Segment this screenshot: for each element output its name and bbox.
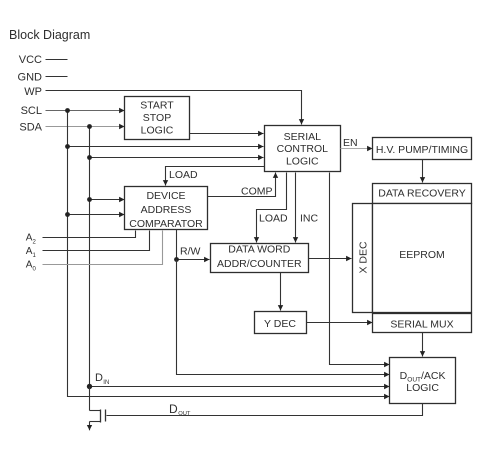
svg-text:LOGIC: LOGIC xyxy=(141,125,174,137)
svg-text:Block Diagram: Block Diagram xyxy=(9,28,90,42)
junction dot SCL bus row2 xyxy=(65,144,70,149)
box U1 START STOP LOGIC xyxy=(125,97,190,140)
svg-text:START: START xyxy=(140,99,174,111)
svg-text:DEVICE: DEVICE xyxy=(146,190,185,202)
svg-text:ADDR/COUNTER: ADDR/COUNTER xyxy=(217,258,302,270)
wire EN serial control to hv pump xyxy=(341,148,373,150)
box U5 Y DEC xyxy=(255,312,307,334)
svg-text:EEPROM: EEPROM xyxy=(399,249,445,261)
wire R/W into data word addr counter xyxy=(177,259,210,261)
junction dot SCL line xyxy=(65,108,70,113)
wire A0 to comparator xyxy=(43,231,163,265)
wire R/W down to dout ack logic xyxy=(177,260,390,375)
svg-text:COMP: COMP xyxy=(241,186,273,198)
wire GND stub xyxy=(46,76,68,78)
svg-text:DATA WORD: DATA WORD xyxy=(228,244,290,256)
pin label A1 xyxy=(26,246,37,259)
svg-text:SCL: SCL xyxy=(21,105,42,117)
wire VCC stub xyxy=(46,59,68,61)
svg-text:INC: INC xyxy=(300,213,319,225)
svg-text:X DEC: X DEC xyxy=(358,241,370,274)
svg-text:D: D xyxy=(95,372,103,384)
wire SDA bus to device address comparator xyxy=(90,199,125,201)
svg-text:VCC: VCC xyxy=(19,54,42,66)
wire DOUT from dout ack logic to transistor gate xyxy=(107,404,423,416)
box U4 DATA WORD ADDR COUNTER xyxy=(211,244,309,273)
box U8 X DEC xyxy=(353,204,373,313)
wire LOAD serial control to data word xyxy=(257,173,287,243)
wire A1 to comparator xyxy=(43,231,150,251)
junction dot R/W xyxy=(174,257,179,262)
ground xyxy=(89,422,91,431)
wire SCL bus to serial control logic xyxy=(68,146,264,148)
svg-text:D: D xyxy=(169,402,178,416)
node DOUT label xyxy=(169,402,191,417)
wire serial mux to dout ack logic xyxy=(422,333,424,357)
box U11 DOUT ACK LOGIC xyxy=(390,358,456,404)
svg-text:IN: IN xyxy=(103,380,109,386)
svg-text:SERIAL MUX: SERIAL MUX xyxy=(390,319,453,331)
wire COMP comparator to serial control xyxy=(208,173,276,197)
box U3 DEVICE ADDRESS COMPARATOR xyxy=(125,187,208,230)
wire hv pump to data recovery xyxy=(422,160,424,183)
wire serial control to dout ack logic xyxy=(330,173,390,365)
wire LOAD serial control to comparator xyxy=(166,167,265,186)
wire data word to y dec xyxy=(280,273,282,311)
box U2 SERIAL CONTROL LOGIC xyxy=(265,126,341,172)
wire start stop logic to serial control logic xyxy=(190,133,264,135)
svg-text:R/W: R/W xyxy=(180,246,201,258)
junction dot SDA bus comparator xyxy=(87,197,92,202)
wire WP to serial control logic top xyxy=(46,91,302,125)
pin label A0 xyxy=(26,260,37,273)
wire SDA bus to serial control logic xyxy=(90,157,264,159)
transistor Q1 output mosfet xyxy=(90,387,106,423)
junction dot SDA bus row3 xyxy=(87,155,92,160)
svg-text:LOGIC: LOGIC xyxy=(406,382,439,394)
svg-text:CONTROL: CONTROL xyxy=(277,143,328,155)
svg-text:WP: WP xyxy=(24,86,42,98)
wire SDA vertical bus xyxy=(89,127,91,387)
junction dot SDA line xyxy=(87,124,92,129)
svg-text:LOGIC: LOGIC xyxy=(286,155,319,167)
svg-text:ADDRESS: ADDRESS xyxy=(141,204,192,216)
svg-text:H.V. PUMP/TIMING: H.V. PUMP/TIMING xyxy=(376,144,468,156)
svg-text:Y DEC: Y DEC xyxy=(264,318,296,330)
wire data word to x dec xyxy=(309,258,352,260)
wire SCL vertical bus down to dout ack logic xyxy=(68,111,390,397)
svg-text:LOAD: LOAD xyxy=(259,213,288,225)
box U9 EEPROM xyxy=(373,204,472,313)
svg-text:COMPARATOR: COMPARATOR xyxy=(129,218,203,230)
box U7 DATA RECOVERY xyxy=(373,184,472,204)
wire SCL to start stop logic xyxy=(46,110,125,112)
wire DIN to dout ack logic xyxy=(90,386,390,388)
box U10 SERIAL MUX xyxy=(373,314,472,333)
svg-text:GND: GND xyxy=(18,72,43,84)
box U6 HV PUMP TIMING xyxy=(373,138,472,160)
svg-text:OUT: OUT xyxy=(178,411,191,417)
junction dot DIN xyxy=(87,384,92,389)
wire y dec to serial mux xyxy=(307,322,373,324)
wire SCL bus to device address comparator xyxy=(68,214,125,216)
svg-text:SDA: SDA xyxy=(19,122,42,134)
svg-text:DATA RECOVERY: DATA RECOVERY xyxy=(378,187,466,199)
pin label A2 xyxy=(26,233,37,246)
svg-text:LOAD: LOAD xyxy=(169,169,198,181)
svg-text:EN: EN xyxy=(343,137,358,149)
svg-text:STOP: STOP xyxy=(143,112,171,124)
svg-text:SERIAL: SERIAL xyxy=(284,131,322,143)
wire INC serial control to data word xyxy=(295,173,297,243)
node DIN label xyxy=(95,372,109,386)
junction dot SCL bus comparator xyxy=(65,212,70,217)
wire A2 to comparator xyxy=(43,231,136,238)
wire SDA to start stop logic xyxy=(46,126,125,128)
wire R/W comparator down xyxy=(176,230,178,260)
